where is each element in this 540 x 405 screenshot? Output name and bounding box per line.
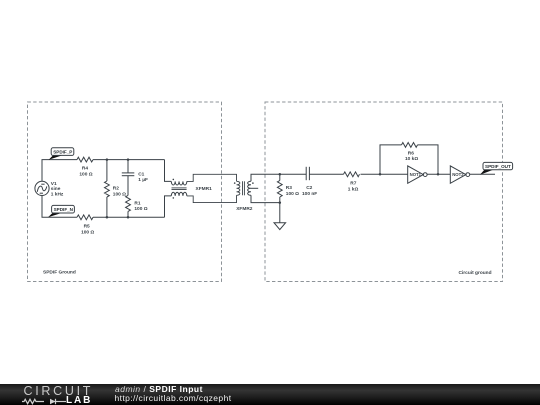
svg-text:SPDIF_OUT: SPDIF_OUT	[485, 164, 511, 169]
svg-text:SPDIF Ground: SPDIF Ground	[43, 270, 76, 276]
svg-text:R6: R6	[408, 150, 414, 156]
svg-text:100 Ω: 100 Ω	[286, 191, 299, 197]
svg-text:R7: R7	[350, 181, 356, 187]
svg-text:100 Ω: 100 Ω	[79, 172, 92, 178]
svg-text:R2: R2	[113, 186, 119, 192]
svg-text:sine: sine	[51, 186, 61, 192]
svg-text:1 kΩ: 1 kΩ	[348, 186, 359, 192]
svg-text:1 kHz: 1 kHz	[51, 192, 64, 198]
svg-text:C2: C2	[306, 185, 312, 191]
svg-text:Circuit ground: Circuit ground	[459, 270, 492, 276]
svg-text:SPDIF_P: SPDIF_P	[53, 149, 72, 154]
svg-text:100 nF: 100 nF	[302, 191, 317, 197]
svg-text:R1: R1	[134, 200, 140, 206]
svg-text:1 µF: 1 µF	[138, 177, 148, 183]
svg-text:10 kΩ: 10 kΩ	[405, 156, 418, 162]
svg-text:R4: R4	[82, 166, 88, 172]
svg-text:C1: C1	[138, 171, 144, 177]
svg-text:NOT1: NOT1	[410, 172, 422, 177]
svg-text:100 Ω: 100 Ω	[113, 191, 126, 197]
svg-text:SPDIF_N: SPDIF_N	[54, 207, 74, 212]
svg-text:NOT2: NOT2	[452, 172, 464, 177]
svg-text:R5: R5	[84, 224, 90, 230]
svg-text:XFMR2: XFMR2	[236, 206, 253, 212]
svg-text:R3: R3	[286, 185, 292, 191]
svg-text:XFMR1: XFMR1	[196, 186, 213, 192]
svg-text:V1: V1	[51, 181, 57, 187]
svg-text:100 Ω: 100 Ω	[81, 230, 94, 236]
svg-text:100 Ω: 100 Ω	[134, 206, 147, 212]
